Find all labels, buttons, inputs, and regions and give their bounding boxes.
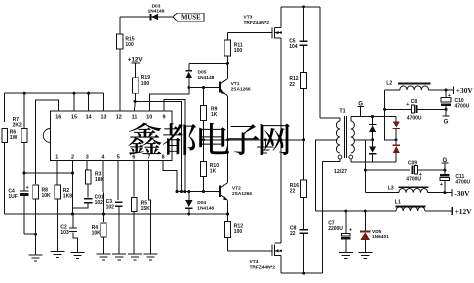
wire secondary bottom [351, 161, 396, 163]
inductor L1 [395, 199, 426, 211]
transformer T1 primary [323, 109, 346, 162]
resistor R12 [289, 73, 306, 140]
svg-text:4700U: 4700U [455, 103, 470, 109]
wire secondary CT [354, 139, 373, 141]
supply +12V top [128, 56, 143, 77]
svg-text:+: + [349, 228, 352, 234]
svg-text:TRFZ44N*2: TRFZ44N*2 [244, 20, 270, 26]
svg-text:VT3: VT3 [244, 15, 253, 21]
resistor R15 [117, 17, 135, 111]
wire primary top lead [320, 118, 340, 121]
capacitor C01 [73, 184, 104, 208]
wire pin13 [103, 93, 105, 111]
svg-text:104: 104 [289, 44, 298, 50]
svg-text:10K: 10K [42, 193, 52, 199]
ground VD5 [358, 252, 372, 258]
resistor R9 [201, 88, 218, 140]
svg-text:10: 10 [146, 115, 152, 121]
wire bridge plus [383, 90, 396, 140]
wire VT3 drain [280, 7, 282, 28]
svg-text:+12V: +12V [128, 56, 143, 63]
svg-text:102: 102 [106, 204, 115, 210]
svg-text:G: G [444, 118, 449, 125]
transistor VT1 2SA1266 [220, 63, 251, 95]
transformer T1 core [345, 116, 347, 158]
svg-text:+: + [406, 102, 409, 108]
inductor L3 [388, 185, 429, 192]
svg-text:MUSE: MUSE [181, 15, 201, 22]
svg-text:4700U: 4700U [455, 179, 470, 185]
svg-text:100: 100 [234, 229, 243, 235]
diode bridge D4 bottomright [393, 138, 400, 162]
wire L2 left [385, 89, 400, 91]
label T1 ratio [334, 169, 347, 175]
diode bridge D3 topright [393, 117, 400, 145]
resistor R6 [2, 129, 18, 215]
ground G C10 [443, 109, 450, 125]
diode D03 1N4148 [148, 3, 173, 20]
svg-text:D04: D04 [197, 200, 206, 206]
wire R12-VT4gate [228, 250, 272, 252]
wire pin7 [149, 161, 151, 255]
ground R4 [97, 254, 111, 260]
svg-text:4: 4 [101, 154, 104, 160]
node VT2e-R12 [226, 213, 229, 216]
wire R11-VT3gate [227, 32, 271, 34]
svg-text:4700U: 4700U [407, 116, 422, 122]
resistor R16 [290, 140, 307, 229]
wire pin9-driver [164, 100, 186, 193]
capacitor C09 4700U [406, 160, 446, 182]
wire pin5 [117, 161, 119, 201]
ground C2 [71, 253, 85, 259]
wire pin1 [56, 161, 58, 185]
wire bottom rail [281, 272, 323, 275]
transistor VT2 2SA1266 [220, 183, 252, 214]
wire top rail [281, 5, 320, 8]
IC U1 TL494 [43, 111, 172, 161]
svg-text:10K: 10K [92, 230, 102, 236]
svg-text:+: + [26, 185, 29, 191]
wire rail to primary [319, 7, 321, 118]
ground mid [257, 140, 273, 153]
svg-text:L1: L1 [395, 199, 401, 205]
ground G C11 [442, 157, 449, 172]
svg-text:VT2: VT2 [232, 185, 241, 191]
capacitor C11 4700U [440, 170, 471, 194]
ground pin7 [144, 254, 158, 260]
svg-text:1N4148: 1N4148 [198, 75, 215, 81]
transformer T1 secondary [349, 117, 355, 163]
wire R15-D03 [120, 16, 150, 18]
svg-text:VT1: VT1 [231, 81, 240, 87]
svg-text:+: + [448, 93, 451, 99]
svg-text:8: 8 [162, 154, 165, 160]
resistor R3 [85, 170, 104, 184]
svg-text:1K: 1K [210, 168, 217, 174]
svg-text:C09: C09 [408, 160, 417, 166]
wire L1 right [425, 210, 452, 212]
svg-text:7: 7 [147, 154, 150, 160]
svg-text:12: 12 [116, 115, 122, 121]
wire pin2 [71, 161, 74, 216]
svg-text:1N4148: 1N4148 [148, 9, 165, 15]
resistor R12b [225, 214, 244, 251]
svg-text:11: 11 [132, 115, 138, 121]
svg-text:14: 14 [86, 115, 92, 121]
wire R19-driver [135, 101, 183, 193]
capacitor C6 [290, 226, 308, 274]
ground G secondary [357, 100, 364, 116]
svg-text:1W: 1W [10, 135, 18, 141]
capacitor C4 [8, 173, 35, 234]
wire pin14 [87, 92, 90, 111]
wire VT4 drain [280, 256, 282, 274]
terminal +30V [454, 86, 474, 95]
watermark xindu dianziwang [128, 123, 289, 156]
inductor L2 [386, 81, 430, 90]
svg-text:+12V: +12V [455, 207, 473, 216]
svg-text:2K2: 2K2 [13, 123, 22, 129]
svg-text:C8: C8 [411, 99, 418, 105]
node VT1 base line [187, 86, 219, 89]
diode bridge D2 bottomleft [369, 138, 376, 162]
svg-text:2: 2 [71, 154, 74, 160]
wire C09 line [365, 169, 410, 171]
svg-text:16: 16 [55, 115, 61, 121]
svg-text:2200U: 2200U [328, 226, 343, 232]
diode D04 1N4148 [185, 192, 214, 214]
svg-text:12/27: 12/27 [334, 169, 347, 175]
wire pin15 [73, 92, 76, 111]
resistor R19 [132, 75, 150, 101]
diode bridge D1 topleft [369, 117, 376, 147]
resistor R8 [33, 100, 59, 255]
svg-text:VD5: VD5 [372, 229, 382, 235]
svg-text:9: 9 [163, 115, 166, 121]
svg-text:22: 22 [289, 82, 295, 88]
transistor VT4 TRFZ44N [250, 243, 283, 271]
svg-text:15: 15 [71, 115, 77, 121]
svg-text:-30V: -30V [454, 189, 470, 198]
flag MUSE [173, 13, 204, 21]
wire D05-R11 [189, 62, 229, 65]
svg-text:+: + [440, 182, 443, 188]
svg-text:100: 100 [234, 48, 243, 54]
svg-text:2SA1266: 2SA1266 [232, 191, 252, 197]
svg-text:103: 103 [60, 230, 69, 236]
svg-text:6: 6 [132, 154, 135, 160]
resistor R10 [201, 140, 220, 192]
wire VT3 source [280, 38, 282, 140]
wire L2 right [429, 89, 454, 92]
svg-text:4700U: 4700U [406, 177, 421, 183]
svg-text:22: 22 [290, 231, 296, 237]
capacitor C7 2200U [328, 211, 352, 252]
svg-text:100: 100 [125, 42, 134, 48]
wire bridge minus [364, 140, 373, 193]
wire VT1e-VT2c [226, 96, 229, 183]
node R19-pin11 [134, 100, 137, 111]
wire L3 left [365, 192, 399, 194]
ground R8 [29, 255, 43, 261]
wire primary CT [315, 140, 337, 211]
svg-text:13: 13 [101, 115, 107, 121]
wire pin10-driver [149, 88, 189, 112]
wire pin4 [102, 161, 105, 216]
svg-text:TRFZ44N*2: TRFZ44N*2 [250, 265, 276, 271]
svg-text:T1: T1 [339, 109, 345, 115]
capacitor C8 4700U [385, 99, 446, 122]
svg-text:1: 1 [55, 154, 58, 160]
svg-text:5: 5 [117, 154, 120, 160]
svg-text:100: 100 [141, 81, 150, 87]
resistor R4 [92, 214, 107, 254]
terminal +12V [452, 207, 472, 216]
svg-text:L3: L3 [388, 185, 394, 191]
svg-text:22: 22 [290, 189, 296, 195]
svg-text:VT4: VT4 [250, 259, 259, 265]
transistor VT3 TRFZ44N [244, 15, 283, 39]
IC U1 pin numbers [55, 115, 165, 161]
svg-text:15K: 15K [141, 206, 151, 212]
svg-text:+30V: +30V [456, 86, 474, 95]
wire R7-pin2 [23, 172, 74, 175]
wire ground line [202, 138, 305, 141]
capacitor C10 4700U [441, 90, 470, 111]
resistor R7 [13, 92, 27, 173]
svg-text:L2: L2 [386, 81, 392, 87]
svg-text:D03: D03 [152, 3, 161, 9]
capacitor C3 [106, 199, 123, 254]
ground C7 [339, 252, 353, 258]
ground C3 [112, 254, 126, 260]
svg-text:D05: D05 [198, 70, 207, 76]
wire VT4 source [280, 140, 282, 243]
wire pin6 [133, 161, 135, 197]
svg-text:1K8: 1K8 [63, 194, 72, 200]
diode VD5 1N6401 [360, 211, 389, 252]
resistor R5 [131, 197, 150, 254]
wire pin8 jog [163, 161, 178, 194]
capacitor C5 [289, 7, 307, 73]
ground R5 [128, 254, 142, 260]
resistor R2 [55, 185, 72, 252]
resistor R11 [224, 33, 243, 64]
svg-text:1K: 1K [211, 112, 218, 118]
svg-text:1N4148: 1N4148 [197, 206, 214, 212]
wire top-left supply rail [5, 93, 104, 122]
svg-text:3: 3 [86, 154, 89, 160]
terminal -30V [452, 189, 470, 198]
wire L3 right [428, 192, 452, 194]
svg-text:102: 102 [95, 200, 104, 206]
wire primary bottom riser [322, 161, 324, 273]
wire line A [315, 210, 396, 213]
wire line B [5, 213, 228, 216]
wire secondary top [351, 115, 396, 118]
wire pin3 [86, 161, 88, 170]
svg-text:1UF: 1UF [8, 194, 17, 200]
svg-text:1N6401: 1N6401 [372, 234, 389, 240]
ground R2 [51, 252, 65, 258]
node VT2 base line [177, 190, 220, 193]
diode D05 1N4148 [185, 63, 214, 87]
capacitor C2 [60, 214, 77, 253]
svg-text:2SA1266: 2SA1266 [231, 87, 251, 93]
